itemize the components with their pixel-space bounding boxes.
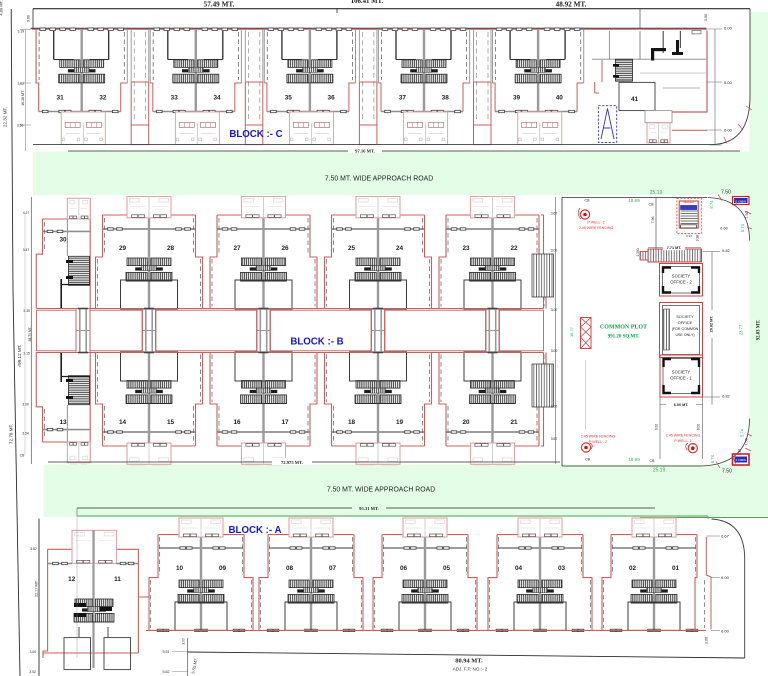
svg-text:MERGED: MERGED [683,201,694,204]
svg-text:04: 04 [515,565,523,572]
svg-text:35: 35 [285,95,293,102]
svg-text:7.50 MT. WIDE APPROACH ROAD: 7.50 MT. WIDE APPROACH ROAD [327,487,435,494]
block B pair 25-24 [325,197,432,310]
svg-text:2.45 WIRE FENCING: 2.45 WIRE FENCING [581,435,616,439]
svg-text:18.69: 18.69 [628,457,640,462]
svg-text:5.74: 5.74 [740,428,745,437]
block C court between pairs [131,82,149,145]
block A pair 04-03 [488,518,592,632]
svg-text:3.67: 3.67 [551,437,558,441]
svg-text:SOCIETY: SOCIETY [672,274,691,279]
block A bottom red line [146,629,706,631]
svg-text:22.17 MT: 22.17 MT [35,580,39,597]
left dim line [24,29,26,151]
plot bottom-right corner arc [702,419,750,466]
svg-text:S.CABIN: S.CABIN [736,199,747,203]
svg-text:17: 17 [281,419,289,426]
svg-text:16: 16 [233,419,241,426]
svg-text:4.89 MT.: 4.89 MT. [0,0,4,15]
svg-text:3.00: 3.00 [29,650,36,654]
svg-text:7.71 MT.: 7.71 MT. [667,246,682,250]
block C right dim column [714,29,716,145]
svg-text:5.74: 5.74 [709,200,714,209]
block A pair 02-01 [602,518,705,632]
svg-text:3.67: 3.67 [551,212,558,216]
svg-text:√99.12 MT.: √99.12 MT. [17,345,22,368]
svg-text:3.00: 3.00 [182,638,186,645]
road 2 bottom dim line 95.31 MT. [77,507,655,509]
society office 1 [660,355,703,397]
svg-text:ADJ. F.P. NO.:- 2: ADJ. F.P. NO.:- 2 [453,667,488,672]
top right boundary corner arc [710,12,751,145]
svg-text:80.94 MT.: 80.94 MT. [455,658,483,665]
svg-text:P WELL - 2: P WELL - 2 [589,440,607,444]
svg-text:3.82: 3.82 [30,547,37,551]
svg-text:5.51: 5.51 [163,650,170,654]
svg-text:CB: CB [649,203,655,207]
svg-text:3.15: 3.15 [23,352,30,356]
block B [36,197,555,466]
svg-text:3.00: 3.00 [705,637,709,644]
svg-text:39: 39 [513,95,521,102]
svg-text:7.50: 7.50 [745,438,749,445]
svg-text:7.96: 7.96 [651,217,655,224]
block C court between pairs [474,82,492,145]
block C top line [31,27,707,29]
svg-text:38.70 MT.: 38.70 MT. [28,326,32,341]
svg-text:26: 26 [281,245,289,252]
block B central corridor [36,308,543,354]
dim 20.82 MT vertical [711,252,713,405]
svg-text:92.83 MT.: 92.83 MT. [757,320,762,341]
block B pair 18-19 [325,352,432,466]
svg-text:3.19: 3.19 [17,30,24,34]
block B outer boundary left [30,197,32,464]
svg-text:14: 14 [119,419,127,426]
svg-text:P WELL -2: P WELL -2 [587,221,604,225]
svg-text:02: 02 [629,565,637,572]
top boundary line [33,8,750,10]
svg-text:SOCIETY: SOCIETY [672,370,691,375]
road 2 green bottom edge right [640,517,768,519]
svg-text:5.74: 5.74 [710,454,715,463]
vertical line to walkway [655,198,657,250]
svg-text:6.00: 6.00 [721,629,730,634]
svg-text:3.54: 3.54 [22,432,29,436]
svg-text:6.60: 6.60 [720,227,727,231]
svg-text:33: 33 [171,95,179,102]
block B unit 30 [36,198,90,308]
svg-text:6.00: 6.00 [724,128,733,133]
P well bottom left [581,435,616,453]
society office middle [660,303,703,358]
svg-text:38: 38 [442,95,450,102]
svg-text:28: 28 [167,245,175,252]
svg-text:7.50: 7.50 [721,190,731,196]
block B unit 13 [36,353,90,465]
svg-text:20: 20 [462,419,470,426]
block A left boundary [38,519,40,676]
svg-text:09: 09 [219,565,227,572]
approach road 1 green band [33,152,768,196]
block B pair 14-15 [96,352,203,466]
block A pair 08-07 [259,518,363,632]
common plot area [562,190,762,475]
svg-text:7.50: 7.50 [722,469,732,475]
svg-text:OFFICE - 2: OFFICE - 2 [670,280,692,285]
svg-text:6.00: 6.00 [724,26,733,31]
svg-text:991.20 SQ.MT.: 991.20 SQ.MT. [608,335,641,340]
svg-text:3.56: 3.56 [17,124,24,128]
svg-text:3.00: 3.00 [704,14,708,21]
electric room mini plan [677,198,701,238]
block B pair 16-17 [210,352,317,466]
svg-text:57.49 MT.: 57.49 MT. [204,1,235,9]
svg-text:01: 01 [672,565,680,572]
block C unit pair 31-32 [36,28,127,145]
svg-text:72.975 MT.: 72.975 MT. [281,460,303,465]
svg-text:07: 07 [329,565,337,572]
block A [29,516,745,676]
svg-text:30: 30 [59,237,67,244]
svg-text:6.82: 6.82 [722,249,729,253]
approach road 2 green band [44,465,768,518]
svg-text:25: 25 [348,245,356,252]
svg-text:21: 21 [510,419,518,426]
svg-text:BLOCK :- C: BLOCK :- C [229,129,282,140]
svg-text:06: 06 [400,565,408,572]
svg-text:3.00: 3.00 [551,405,558,409]
svg-text:22.32 MT.: 22.32 MT. [3,107,8,127]
svg-text:2.45 WIRE FENCING: 2.45 WIRE FENCING [579,226,614,230]
block B pair 20-21 [439,352,546,466]
svg-text:106.41 MT.: 106.41 MT. [351,0,384,5]
S-CABIN top right [733,197,750,205]
road 2 top dim line 72.975 MT. [48,461,560,463]
block C [31,28,707,145]
svg-text:P WELL- 1: P WELL- 1 [674,439,691,443]
svg-text:15: 15 [167,419,175,426]
block C unit 41 [592,31,707,143]
right margin green strip [750,12,768,468]
svg-text:6.82: 6.82 [722,395,729,399]
svg-text:37: 37 [399,95,407,102]
svg-text:18: 18 [348,419,356,426]
block C unit pair 39-40 [493,28,584,145]
svg-text:6.00: 6.00 [655,424,659,430]
svg-text:23: 23 [462,245,470,252]
ladder element [569,318,591,349]
svg-text:08: 08 [286,565,294,572]
svg-text:3.00: 3.00 [551,349,558,353]
svg-text:7.50: 7.50 [745,211,749,218]
svg-text:CB: CB [20,454,25,458]
svg-text:6.00: 6.00 [721,575,730,580]
plot top-right corner arc [708,198,750,241]
svg-text:OFFICE - 1: OFFICE - 1 [670,376,692,381]
svg-text:31: 31 [57,95,65,102]
svg-text:3.02: 3.02 [17,82,24,86]
block B pair 23-22 [439,197,546,310]
svg-text:6.67: 6.67 [721,534,730,539]
society office 2 [660,264,703,297]
svg-text:32: 32 [99,95,107,102]
svg-text:38.77: 38.77 [569,326,574,337]
svg-text:25.19: 25.19 [653,468,666,474]
svg-text:11: 11 [114,576,121,583]
svg-text:05: 05 [443,565,451,572]
block C court between pairs [245,82,262,145]
svg-text:34: 34 [213,95,221,102]
svg-text:40: 40 [556,95,564,102]
svg-text:S.CABIN: S.CABIN [736,458,747,462]
block A land top line [77,515,708,517]
block B right end cores [532,197,556,464]
svg-text:16.38 MT.: 16.38 MT. [21,90,25,106]
svg-text:3.00: 3.00 [22,403,29,407]
block C bottom ground line [33,144,710,146]
svg-text:CB: CB [585,458,591,462]
bottom boundary line [188,652,745,658]
common plot top line [562,197,707,199]
svg-text:20.82 MT.: 20.82 MT. [710,316,714,333]
block C unit pair 37-38 [378,28,469,145]
S-CABIN bottom right [733,454,750,465]
svg-text:95.31 MT.: 95.31 MT. [359,506,379,511]
svg-text:6.00: 6.00 [697,424,701,430]
svg-text:(FOR COMMON: (FOR COMMON [672,327,699,331]
block A pair 10-09 [149,518,253,632]
svg-text:27: 27 [233,245,241,252]
svg-text:OFFICE: OFFICE [678,320,693,325]
svg-text:4.27: 4.27 [23,211,30,215]
common plot left boundary [561,198,563,467]
svg-text:5.62: 5.62 [163,670,170,674]
svg-text:7.50 MT. WIDE APPROACH ROAD: 7.50 MT. WIDE APPROACH ROAD [325,176,433,183]
block A pair 06-05 [373,518,477,632]
road 1 dimension line 97.16 MT. [68,150,740,152]
svg-text:BLOCK :- B: BLOCK :- B [290,337,343,348]
svg-text:97.16 MT.: 97.16 MT. [355,149,375,154]
road 2 right green extension [640,465,768,518]
svg-text:10: 10 [176,565,184,572]
svg-text:3.00: 3.00 [551,249,558,253]
svg-text:03: 03 [558,565,566,572]
svg-text:29: 29 [119,245,127,252]
svg-text:5.74: 5.74 [740,223,745,232]
svg-text:2.93: 2.93 [686,234,692,238]
svg-text:2.45 WIRE FENCING: 2.45 WIRE FENCING [666,434,701,438]
svg-text:6.00 MT.: 6.00 MT. [674,403,689,407]
P well 2 top [578,208,613,230]
svg-text:3.47: 3.47 [23,248,30,252]
svg-text:25.19: 25.19 [650,190,663,196]
svg-text:23.77: 23.77 [739,324,744,335]
svg-text:6.00: 6.00 [724,80,733,85]
svg-text:1.390: 1.390 [636,248,640,256]
svg-text:COMMON PLOT: COMMON PLOT [600,325,647,331]
svg-text:9.00: 9.00 [26,15,30,22]
svg-text:24: 24 [396,245,404,252]
common plot bottom line [562,465,702,467]
svg-text:41: 41 [631,96,639,103]
svg-text:3.30: 3.30 [23,309,30,313]
svg-text:13: 13 [59,419,67,426]
svg-text:3.00: 3.00 [551,308,558,312]
svg-text:22: 22 [510,245,518,252]
block C unit pair 33-34 [150,28,241,145]
svg-text:48.92 MT.: 48.92 MT. [556,1,587,9]
svg-text:SOCIETY: SOCIETY [676,314,694,319]
office bottom dim 6.00 MT [659,397,661,459]
svg-text:72.78 MT.: 72.78 MT. [9,424,14,444]
block C court between pairs [359,82,377,145]
transformer bay (blue dashed) [598,106,616,143]
green dim 38.77 line [585,360,587,430]
svg-text:CB: CB [650,459,656,463]
block A building 12-11 [43,530,150,670]
svg-text:19: 19 [396,419,404,426]
P well bottom right [666,434,701,453]
block A right boundary [712,519,745,658]
walkway hatch strip [636,244,730,262]
svg-text:3.02: 3.02 [29,670,36,674]
block B pair 27-26 [210,197,317,310]
svg-text:3.38: 3.38 [696,235,700,242]
svg-text:USE ONLY): USE ONLY) [675,333,694,337]
svg-text:CB: CB [585,199,591,203]
left boundary line [11,9,20,676]
block C unit pair 35-36 [264,28,355,145]
svg-text:18.69: 18.69 [628,198,640,203]
svg-text:36: 36 [328,95,336,102]
block B pair 29-28 [96,197,203,310]
svg-text:12: 12 [68,576,76,583]
